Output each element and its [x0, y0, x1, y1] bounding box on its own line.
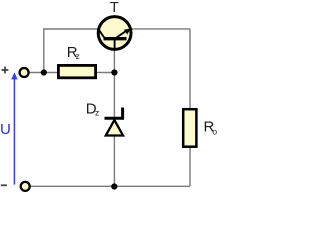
wire Rz right to middle node	[96, 72, 114, 74]
wire bottom rail	[31, 185, 191, 187]
terminal - input	[21, 182, 30, 191]
wire transistor right to top-right corner	[131, 28, 190, 30]
voltage arrow U	[11, 72, 17, 184]
wire right vertical to Ro top	[189, 29, 191, 109]
svg-text:z: z	[76, 51, 80, 61]
resistor Ro	[183, 109, 196, 147]
wire Ro bottom to bottom rail	[189, 147, 191, 186]
svg-text:z: z	[95, 108, 99, 118]
junction node Rz-zener-base	[111, 69, 117, 75]
wire + rail from terminal to Rz	[30, 72, 59, 74]
resistor Rz	[58, 65, 95, 77]
svg-text:o: o	[212, 126, 217, 136]
wire top-left vertical from + rail up to corner	[43, 29, 45, 73]
label +	[2, 67, 9, 74]
svg-text:T: T	[110, 0, 119, 16]
wire zener anode down to bottom rail	[113, 136, 115, 186]
terminal + input	[20, 68, 29, 77]
transistor T	[98, 17, 131, 50]
junction node at + rail / base branch	[41, 69, 47, 75]
wire top-left horizontal to transistor base-side	[43, 28, 98, 30]
zener diode Dz	[105, 108, 125, 136]
junction node zener anode at bottom rail	[111, 183, 117, 189]
wire transistor emitter down to zener	[113, 50, 115, 118]
svg-text:U: U	[0, 121, 11, 138]
label -	[1, 184, 7, 186]
